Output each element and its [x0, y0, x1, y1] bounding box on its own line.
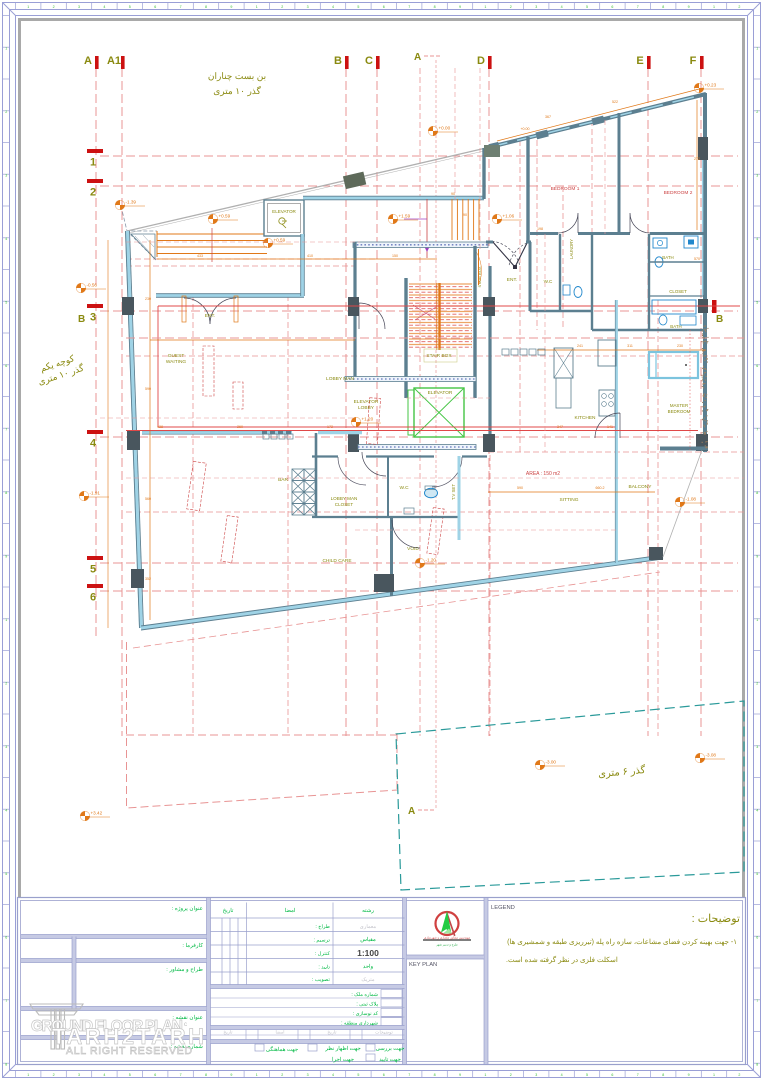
svg-text:c: c	[184, 1022, 187, 1028]
svg-text:1: 1	[756, 618, 758, 622]
svg-text:7: 7	[637, 1073, 639, 1077]
svg-text:LOBBY: LOBBY	[358, 405, 375, 411]
svg-text:8: 8	[756, 491, 758, 495]
svg-text:9: 9	[5, 555, 7, 559]
svg-text:311: 311	[627, 344, 633, 348]
svg-text:4: 4	[90, 438, 97, 450]
svg-text:6: 6	[90, 592, 96, 604]
svg-text:T.V SET: T.V SET	[451, 484, 456, 500]
svg-text:1: 1	[713, 5, 715, 9]
svg-text:‏۱- جهت بهینه کردن فضای مشاعات: ‏۱- جهت بهینه کردن فضای مشاعات، سازه راه…	[507, 938, 737, 946]
guest waiting south wall	[142, 431, 292, 434]
svg-text:172: 172	[327, 425, 333, 429]
svg-text:9: 9	[688, 1073, 690, 1077]
svg-text:‏جهت هماهنگی‏: ‏جهت هماهنگی‏	[266, 1046, 298, 1053]
svg-text:8: 8	[5, 1063, 7, 1067]
dashed property line top-left corner	[121, 206, 157, 231]
svg-text:1: 1	[484, 1073, 486, 1077]
street name left rotated	[33, 351, 86, 388]
svg-text:4: 4	[5, 809, 7, 813]
core east wall	[488, 266, 491, 452]
svg-text:‏معماری‏: ‏معماری‏	[360, 924, 377, 930]
closet north wall	[318, 431, 362, 434]
right facade glazing line	[702, 160, 704, 295]
right facade wall	[703, 93, 707, 452]
offset dashed line below bottom facade	[133, 572, 660, 648]
svg-text:‏جهت اظهار نظر‏: ‏جهت اظهار نظر‏	[324, 1046, 361, 1052]
svg-text:-1.20: -1.20	[426, 558, 437, 563]
svg-text:90: 90	[463, 213, 467, 217]
svg-text:5: 5	[357, 5, 359, 9]
child care wall	[390, 518, 393, 596]
svg-text:3: 3	[756, 745, 758, 749]
elevator (ramp zone)	[264, 200, 304, 236]
svg-text:8: 8	[662, 5, 664, 9]
svg-text:A: A	[408, 806, 415, 817]
svg-text:‏کد نوسازی :‏: ‏کد نوسازی :‏	[353, 1011, 379, 1017]
svg-text:6: 6	[756, 936, 758, 940]
svg-text:A1: A1	[107, 55, 121, 67]
svg-text:8: 8	[205, 5, 207, 9]
svg-text:A: A	[414, 52, 421, 63]
svg-text:2: 2	[90, 187, 96, 199]
svg-text:7: 7	[180, 1073, 182, 1077]
kitchen	[615, 300, 618, 563]
level markers	[115, 200, 145, 210]
svg-text:‏تاریخ‏: ‏تاریخ‏	[223, 908, 234, 914]
bedroom door arcs	[558, 213, 578, 233]
svg-text:+0.23: +0.23	[705, 83, 717, 88]
svg-text:‏جهت تایید‏: ‏جهت تایید‏	[379, 1057, 401, 1063]
svg-text:C: C	[365, 55, 373, 67]
svg-text:150: 150	[392, 254, 398, 258]
svg-text:5: 5	[129, 5, 131, 9]
property line red dashed	[126, 642, 397, 808]
svg-text:2: 2	[756, 682, 758, 686]
core north wall segments	[486, 241, 493, 244]
svg-text:3: 3	[307, 1073, 309, 1077]
section dividers	[207, 898, 211, 1064]
pedestal table logo	[30, 1004, 83, 1049]
svg-text:1:100: 1:100	[357, 948, 379, 958]
balcony parapet to column F	[663, 450, 702, 557]
svg-text:2: 2	[510, 5, 512, 9]
svg-text:A: A	[84, 55, 92, 67]
stair east wall	[473, 246, 476, 398]
svg-text:590: 590	[517, 486, 523, 490]
svg-text:6: 6	[154, 5, 156, 9]
svg-text:4: 4	[332, 5, 334, 9]
ramp zone east wall	[301, 234, 305, 296]
svg-text:-3.00: -3.00	[546, 760, 557, 765]
svg-text:5: 5	[90, 564, 96, 576]
svg-text:1: 1	[256, 5, 258, 9]
stair west wall	[404, 278, 407, 398]
ramp zone south wall	[156, 294, 304, 298]
svg-text:6: 6	[383, 5, 385, 9]
master bedroom	[649, 352, 698, 378]
svg-text:4: 4	[561, 5, 563, 9]
svg-text:1: 1	[484, 5, 486, 9]
svg-text:BEDROOM 1: BEDROOM 1	[551, 186, 580, 192]
svg-text:‏طرح و تدبیر شهر‏: ‏طرح و تدبیر شهر‏	[435, 943, 458, 947]
svg-text:141: 141	[607, 425, 613, 429]
svg-text:2: 2	[5, 110, 7, 114]
svg-text:570: 570	[694, 257, 700, 261]
svg-text:410: 410	[307, 254, 313, 258]
svg-text:367: 367	[545, 115, 551, 119]
svg-text:‏گذر ۱۰ متری‏: ‏گذر ۱۰ متری‏	[213, 85, 261, 97]
canopy projection line (gray diagonal)	[127, 148, 486, 231]
svg-text:590: 590	[145, 387, 151, 391]
svg-text:5: 5	[5, 301, 7, 305]
svg-text:‏متریک‏: ‏متریک‏	[361, 977, 375, 983]
svg-text:BALCONY: BALCONY	[629, 484, 653, 490]
svg-text:2: 2	[738, 1073, 740, 1077]
svg-text:‏اسکلت فلزی در نظر گرفته شده ا: ‏اسکلت فلزی در نظر گرفته شده است.‏	[506, 955, 618, 964]
orange dim line left outside	[107, 240, 109, 628]
svg-text:‏عنوان پروژه :‏: ‏عنوان پروژه :‏	[172, 905, 203, 912]
svg-text:ELEVATOR: ELEVATOR	[354, 399, 379, 405]
glass segments	[262, 431, 291, 435]
svg-text:3: 3	[78, 5, 80, 9]
svg-text:‏ترسیم :‏: ‏ترسیم :‏	[313, 938, 330, 944]
grid letter labels	[84, 55, 697, 67]
svg-text:GUEST: GUEST	[168, 353, 185, 359]
svg-text:7: 7	[408, 1073, 410, 1077]
svg-text:1: 1	[756, 47, 758, 51]
svg-text:ELEVATOR: ELEVATOR	[428, 390, 453, 396]
svg-text:4: 4	[103, 1073, 105, 1077]
svg-text:4: 4	[756, 809, 758, 813]
svg-text:241: 241	[577, 344, 583, 348]
lobby glass band north	[345, 377, 476, 382]
svg-text:KITCHEN: KITCHEN	[574, 415, 596, 421]
svg-text:‏امضا‏: ‏امضا‏	[285, 908, 296, 914]
svg-text:8: 8	[434, 1073, 436, 1077]
small window sill marks	[502, 349, 545, 355]
svg-text:‏تایید :‏: ‏تایید :‏	[318, 965, 330, 971]
svg-text:B: B	[78, 314, 85, 325]
svg-text:BATH: BATH	[662, 255, 673, 260]
ENT double door	[184, 298, 236, 324]
stair box treads	[409, 284, 472, 345]
svg-text:7: 7	[5, 428, 7, 432]
lobby west wall	[353, 242, 356, 379]
entrance double door V	[492, 241, 527, 267]
svg-text:W.C: W.C	[399, 485, 409, 491]
svg-text:+0.00: +0.00	[520, 127, 529, 131]
svg-text:STAIR BOX: STAIR BOX	[426, 353, 452, 359]
svg-text:+3.42: +3.42	[91, 811, 103, 816]
svg-text:‏شماره ملک :‏: ‏شماره ملک :‏	[351, 992, 378, 998]
svg-text:WAITING: WAITING	[166, 359, 187, 365]
svg-text:+1.59: +1.59	[399, 214, 411, 219]
key plan	[407, 955, 485, 959]
svg-text:90: 90	[451, 192, 455, 196]
svg-text:8: 8	[5, 491, 7, 495]
svg-text:3: 3	[5, 745, 7, 749]
dimension lines	[150, 88, 703, 620]
svg-text:+0.00: +0.00	[439, 126, 451, 131]
svg-text:‏کارفرما :‏: ‏کارفرما :‏	[182, 942, 203, 949]
svg-text:8: 8	[662, 1073, 664, 1077]
lobby glass band south	[358, 445, 476, 450]
svg-text:6: 6	[154, 1073, 156, 1077]
right wall columns	[698, 137, 708, 160]
svg-text:230: 230	[145, 297, 151, 301]
ramp side triangle hatch	[131, 234, 155, 259]
svg-text:-0.56: -0.56	[87, 283, 98, 288]
parking ramp treads	[157, 231, 267, 257]
svg-text:CLOSET: CLOSET	[335, 502, 354, 507]
svg-text:6: 6	[611, 5, 613, 9]
svg-text:LOBBY MAN: LOBBY MAN	[326, 376, 354, 382]
balcony wall	[660, 447, 708, 451]
lobby man closet walls	[315, 433, 318, 516]
svg-text:522: 522	[612, 100, 618, 104]
svg-text:7: 7	[637, 5, 639, 9]
svg-text:5: 5	[5, 872, 7, 876]
svg-text:‏پلاک ثبتی :‏: ‏پلاک ثبتی :‏	[356, 1002, 378, 1008]
svg-text:3: 3	[90, 312, 96, 324]
svg-text:9: 9	[459, 1073, 461, 1077]
entry corridor west wall	[482, 148, 485, 199]
svg-text:B: B	[716, 314, 723, 325]
elevator shaft	[414, 388, 464, 437]
svg-text:230: 230	[677, 344, 683, 348]
svg-text:7: 7	[180, 5, 182, 9]
svg-text:AREA : 150 m2: AREA : 150 m2	[526, 471, 560, 477]
svg-text:5: 5	[586, 1073, 588, 1077]
svg-text:ELEVATOR: ELEVATOR	[272, 209, 296, 214]
svg-text:1: 1	[5, 618, 7, 622]
svg-text:7: 7	[408, 5, 410, 9]
secondary red dashed lines	[126, 68, 744, 736]
facade mullion blocks	[535, 130, 548, 140]
svg-text:-1.08: -1.08	[686, 497, 697, 502]
svg-text:‏امضا‏: ‏امضا‏	[275, 1030, 284, 1035]
key plan logo	[423, 911, 471, 947]
top diagonal facade wall	[486, 94, 706, 148]
svg-text:LAUNDRY: LAUNDRY	[569, 239, 574, 259]
svg-text:2: 2	[738, 5, 740, 9]
svg-text:LOBBY MAN: LOBBY MAN	[331, 496, 358, 501]
svg-text:8: 8	[756, 1063, 758, 1067]
column block on canopy line	[343, 172, 366, 189]
svg-text:2: 2	[510, 1073, 512, 1077]
svg-text:‏تصویب :‏: ‏تصویب :‏	[312, 977, 331, 983]
bath 1	[648, 234, 650, 330]
red dashed column grid lines A A1 B C D E F	[96, 68, 701, 736]
svg-text:-1.39: -1.39	[126, 200, 137, 205]
svg-text:4: 4	[5, 237, 7, 241]
svg-text:+1.06: +1.06	[503, 214, 515, 219]
svg-text:272: 272	[694, 157, 700, 161]
svg-text:438: 438	[157, 425, 163, 429]
svg-text:2: 2	[281, 1073, 283, 1077]
svg-text:ALL RIGHT RESERVED: ALL RIGHT RESERVED	[66, 1045, 192, 1057]
svg-text:2: 2	[5, 682, 7, 686]
svg-text:‏جهت بررسی‏: ‏جهت بررسی‏	[376, 1046, 405, 1052]
svg-text:9: 9	[459, 5, 461, 9]
svg-text:4: 4	[103, 5, 105, 9]
svg-text:‏کنترل :‏: ‏کنترل :‏	[315, 951, 331, 957]
svg-text:347: 347	[557, 425, 563, 429]
bottom facade wall (diagonal)	[141, 557, 663, 628]
street name top	[208, 71, 266, 97]
svg-text:MASTER: MASTER	[670, 403, 688, 408]
svg-text:3: 3	[535, 1073, 537, 1077]
svg-text:3: 3	[307, 5, 309, 9]
svg-text:9: 9	[756, 555, 758, 559]
svg-text:560: 560	[145, 497, 151, 501]
svg-text:ENT.: ENT.	[507, 277, 517, 283]
svg-text:7: 7	[5, 999, 7, 1003]
red interior boundary lines	[158, 306, 740, 427]
svg-text:E: E	[636, 55, 643, 67]
svg-text:3: 3	[535, 5, 537, 9]
middle table	[211, 903, 405, 986]
entry steps	[452, 199, 479, 240]
svg-text:5: 5	[756, 872, 758, 876]
shoe boxes row	[263, 434, 293, 439]
svg-text:BEDROOM 2: BEDROOM 2	[664, 190, 693, 196]
svg-text:260: 260	[237, 425, 243, 429]
svg-text:CHILD CARE: CHILD CARE	[322, 558, 351, 564]
svg-text:4: 4	[756, 237, 758, 241]
svg-text:5: 5	[357, 1073, 359, 1077]
svg-text:198: 198	[537, 227, 543, 231]
svg-text:KEY PLAN: KEY PLAN	[409, 962, 437, 968]
svg-text:1: 1	[256, 1073, 258, 1077]
svg-text:2: 2	[53, 1073, 55, 1077]
guest waiting furniture	[187, 346, 444, 563]
svg-text:3: 3	[78, 1073, 80, 1077]
svg-text:3: 3	[756, 174, 758, 178]
svg-text:+1.20: +1.20	[362, 417, 374, 422]
svg-text:5: 5	[129, 1073, 131, 1077]
laundry / wc walls	[559, 234, 561, 312]
svg-text:6: 6	[611, 1073, 613, 1077]
svg-text:CLOSET: CLOSET	[669, 289, 687, 294]
svg-text:SITTING: SITTING	[560, 497, 579, 503]
svg-text:‏طراح و مشاور :‏: ‏طراح و مشاور :‏	[166, 966, 203, 973]
entrance glass wall	[353, 242, 488, 248]
dimension tick texts	[145, 100, 700, 581]
svg-text:9: 9	[230, 1073, 232, 1077]
svg-text:8: 8	[205, 1073, 207, 1077]
grid number labels	[90, 157, 97, 604]
svg-text:BEDROOM: BEDROOM	[668, 409, 691, 414]
svg-text:1: 1	[27, 5, 29, 9]
svg-text:433: 433	[197, 254, 203, 258]
svg-text:‏طراح :‏: ‏طراح :‏	[315, 924, 330, 930]
svg-text:6: 6	[756, 364, 758, 368]
svg-text:‏بن بست چناران‏: ‏بن بست چناران‏	[208, 71, 266, 82]
svg-text:ENT.: ENT.	[205, 313, 215, 319]
svg-text:1: 1	[5, 47, 7, 51]
svg-text:B: B	[334, 55, 342, 67]
svg-text:2: 2	[756, 110, 758, 114]
bedroom divider wall	[618, 113, 621, 234]
svg-text:F: F	[690, 55, 697, 67]
svg-text:2: 2	[281, 5, 283, 9]
svg-text:‏مهندسین مشاور معماری و شهرساز: ‏مهندسین مشاور معماری و شهرسازی‏	[424, 936, 471, 940]
insulation hatch right	[702, 325, 709, 448]
svg-text:7: 7	[756, 428, 758, 432]
svg-text:8: 8	[434, 5, 436, 9]
svg-text:-3.08: -3.08	[706, 753, 717, 758]
svg-text:‏رشته‏: ‏رشته‏	[362, 908, 374, 914]
svg-text:4: 4	[561, 1073, 563, 1077]
extra fine red dashed lines	[100, 68, 744, 530]
svg-text:9: 9	[230, 5, 232, 9]
svg-text:LEGEND: LEGEND	[491, 905, 515, 911]
svg-text:660.2: 660.2	[596, 486, 605, 490]
svg-text:1: 1	[713, 1073, 715, 1077]
svg-text:1: 1	[90, 157, 96, 169]
svg-text:6: 6	[383, 1073, 385, 1077]
svg-text:5: 5	[756, 301, 758, 305]
svg-text:9: 9	[688, 5, 690, 9]
interior north wall	[303, 196, 484, 200]
bar shelving	[292, 469, 316, 515]
svg-text:‏جهت اجرا‏: ‏جهت اجرا‏	[332, 1057, 354, 1063]
bedrooms south wall	[530, 232, 558, 235]
svg-text:D: D	[477, 55, 485, 67]
svg-text:1: 1	[27, 1073, 29, 1077]
svg-text:6: 6	[5, 364, 7, 368]
svg-text:7: 7	[756, 999, 758, 1003]
street boundary teal dashed	[396, 701, 744, 890]
title block outer border	[18, 898, 746, 1065]
left facade wall	[127, 231, 141, 628]
svg-text:2: 2	[53, 5, 55, 9]
left section rows	[21, 935, 207, 939]
left wall columns	[122, 297, 134, 315]
svg-text:-1.91: -1.91	[90, 491, 101, 496]
svg-text:‏توضیحات :‏: ‏توضیحات :‏	[692, 913, 740, 925]
entry corridor east wall	[526, 137, 529, 242]
sitting door arc	[595, 413, 620, 438]
svg-text:‏مقیاس‏: ‏مقیاس‏	[360, 937, 376, 943]
svg-text:5: 5	[586, 5, 588, 9]
svg-text:‏واحد‏: ‏واحد‏	[363, 964, 374, 970]
svg-text:3: 3	[5, 174, 7, 178]
svg-text:+0.59: +0.59	[219, 214, 231, 219]
svg-text:6: 6	[5, 936, 7, 940]
watermark text	[31, 1018, 204, 1057]
svg-text:352: 352	[145, 577, 151, 581]
lobby door arcs	[359, 303, 385, 329]
svg-text:4: 4	[332, 1073, 334, 1077]
